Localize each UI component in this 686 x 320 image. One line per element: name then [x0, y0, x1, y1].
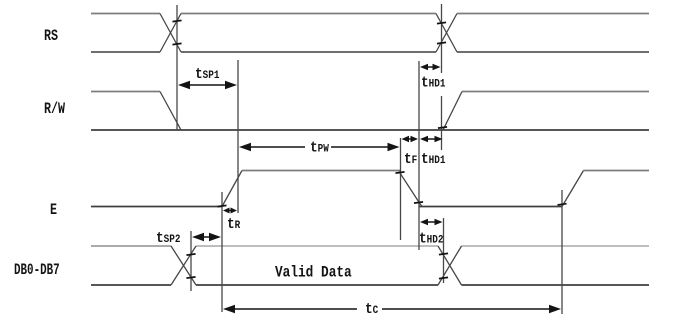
svg-text:tSP2: tSP2	[156, 230, 180, 247]
svg-text:tHD1: tHD1	[421, 75, 445, 92]
svg-text:tC: tC	[365, 301, 378, 315]
svg-text:DB0-DB7: DB0-DB7	[14, 262, 60, 280]
svg-text:tHD2: tHD2	[419, 231, 443, 248]
svg-text:RS: RS	[44, 27, 58, 45]
svg-text:tR: tR	[227, 216, 241, 233]
svg-text:E: E	[50, 201, 57, 219]
svg-text:R/W: R/W	[44, 100, 66, 118]
svg-text:tPW: tPW	[310, 140, 330, 157]
svg-text:tF: tF	[404, 151, 417, 168]
svg-text:Valid Data: Valid Data	[275, 264, 352, 282]
svg-text:tHD1: tHD1	[421, 151, 445, 168]
svg-text:tSP1: tSP1	[195, 66, 219, 83]
